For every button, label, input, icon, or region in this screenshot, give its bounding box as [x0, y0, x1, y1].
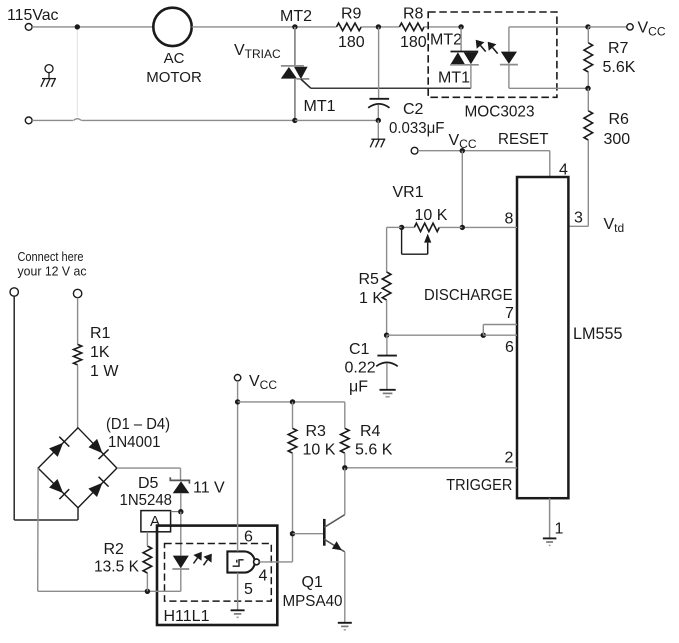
diode D4 bottom-right: [88, 483, 102, 497]
H11L1 LED: [172, 556, 189, 569]
resistor R3: [292, 402, 294, 428]
svg-text:VR1: VR1: [393, 184, 424, 201]
junction top rail: [75, 24, 80, 29]
potentiometer VR1: [414, 223, 439, 231]
optocoupler H11L1 box: [157, 526, 277, 625]
wire pin 1 down: [549, 498, 551, 538]
wire R8 into MOC3023: [424, 26, 461, 28]
terminal 12Vac right: [73, 289, 81, 297]
wire node to pins 6/7: [387, 334, 484, 336]
IC U1 LM555 box: [517, 177, 568, 498]
svg-text:1N5248: 1N5248: [120, 492, 173, 509]
wire pin 6 column: [237, 402, 239, 552]
earth ground C1: [380, 390, 396, 397]
svg-text:AC: AC: [164, 50, 185, 67]
svg-text:R3: R3: [306, 423, 327, 440]
wire 12Vac left down: [13, 296, 15, 520]
diode D2 top-right: [89, 439, 103, 453]
svg-text:R9: R9: [341, 6, 362, 23]
svg-text:Connect here: Connect here: [18, 250, 84, 264]
junction C2 bottom: [376, 118, 381, 123]
earth ground Q1: [338, 623, 352, 630]
svg-text:6: 6: [505, 339, 514, 356]
junction pin8/VR1: [460, 225, 465, 230]
wire pin4 up to base node: [292, 534, 294, 562]
svg-text:R6: R6: [609, 111, 630, 128]
svg-text:(D1 – D4): (D1 – D4): [106, 416, 170, 433]
svg-text:180: 180: [400, 34, 427, 51]
svg-text:R1: R1: [90, 325, 111, 342]
terminal Vcc top right: [627, 24, 633, 30]
svg-text:5.6 K: 5.6 K: [355, 442, 393, 459]
wire C2 to bottom rail: [377, 105, 379, 121]
junction trigger node: [342, 465, 347, 470]
wire MOC LED bottom out: [509, 87, 588, 89]
wire Vcc to rail: [237, 381, 239, 402]
wire bridge bottom stub: [77, 508, 79, 520]
junction MOC pin MT2: [458, 24, 463, 29]
resistor R5: [382, 272, 391, 300]
svg-text:3: 3: [574, 210, 583, 227]
resistor R8: [399, 23, 424, 31]
wire R9 to R8: [361, 26, 399, 28]
diode D1 top-left: [49, 443, 63, 457]
resistor R9: [337, 23, 362, 31]
svg-text:7: 7: [505, 305, 514, 322]
capacitor C2: [368, 99, 389, 108]
wire R1 to bridge top: [77, 365, 79, 428]
junction MT1 bottom: [292, 118, 297, 123]
junction VR1 left: [399, 225, 404, 230]
svg-text:R4: R4: [360, 423, 381, 440]
wire VR1 to R5: [387, 226, 402, 228]
svg-text:5.6K: 5.6K: [603, 59, 636, 76]
wire Q1 emitter down: [344, 552, 346, 623]
svg-text:C2: C2: [403, 101, 424, 118]
svg-text:180: 180: [338, 34, 365, 51]
resistor R2: [146, 573, 148, 591]
junction C1 node: [384, 333, 389, 338]
Q1 emitter arrow: [332, 541, 342, 550]
wire D5 to node A: [180, 493, 182, 512]
transistor Q1: [324, 515, 345, 552]
wire bottom rail: [32, 119, 73, 121]
wire MT2 down to triac: [294, 27, 296, 67]
wire pin 4 out: [259, 561, 292, 563]
svg-text:DISCHARGE: DISCHARGE: [424, 287, 513, 304]
junction pin6/7 link: [481, 333, 486, 338]
diode D3 bottom-left: [49, 479, 63, 493]
wire Vcc to reset corner: [418, 150, 550, 152]
wire node A to LED: [180, 512, 182, 556]
wire motor to MT2: [192, 26, 337, 28]
photon arrows MOC: [476, 40, 486, 52]
wire pin7 link: [482, 325, 484, 336]
wire to Vcc terminal: [588, 26, 627, 28]
junction node A: [178, 509, 183, 514]
schmitt gate H11L1: [227, 551, 254, 572]
svg-text:MT1: MT1: [304, 98, 336, 115]
svg-text:MOC3023: MOC3023: [465, 104, 535, 121]
wire C2 to chassis ground: [377, 120, 379, 139]
svg-text:10 K: 10 K: [303, 442, 336, 459]
wire 12Vac right to R1: [77, 298, 79, 345]
svg-text:C1: C1: [349, 341, 370, 358]
resistor R7: [587, 27, 589, 43]
wire Q1 base: [293, 533, 325, 535]
svg-text:115Vac: 115Vac: [7, 7, 59, 24]
junction Vcc top: [585, 24, 590, 29]
junction Vcc rail left: [235, 399, 240, 404]
svg-text:0.033μF: 0.033μF: [389, 120, 445, 137]
zener diode D5: [170, 477, 189, 493]
wire MOC LED top to Vcc rail: [509, 26, 588, 28]
wire VR1 right lead: [439, 226, 462, 228]
svg-text:300: 300: [604, 131, 631, 148]
svg-text:MT1: MT1: [438, 70, 470, 87]
wire top rail left: [32, 26, 152, 28]
junction MT2: [292, 24, 297, 29]
svg-text:your 12 V ac: your 12 V ac: [18, 265, 87, 279]
crossover hop: [74, 119, 82, 121]
svg-text:R8: R8: [403, 6, 424, 23]
svg-text:LM555: LM555: [573, 325, 623, 343]
wire bridge left down: [37, 468, 39, 591]
wire Vcc column to pin 8: [461, 151, 463, 228]
svg-text:2: 2: [505, 450, 514, 467]
optocoupler MOC3023 dashed box: [428, 12, 557, 97]
wire R5 to C1 node: [386, 300, 388, 335]
earth ground pin 1: [543, 538, 557, 545]
terminal Vcc bottom: [234, 375, 240, 381]
wire reset down to pin 4: [549, 151, 551, 177]
triac V1 symbol: [281, 66, 310, 79]
capacitor C1: [376, 335, 398, 390]
wire Q1 collector: [344, 468, 346, 515]
svg-text:R2: R2: [104, 541, 125, 558]
chassis ground C2: [370, 139, 385, 147]
faint vertical crease line: [76, 30, 78, 118]
svg-text:6: 6: [244, 529, 253, 546]
svg-text:13.5 K: 13.5 K: [94, 559, 139, 576]
junction R3 top: [290, 399, 295, 404]
junction R7/R6: [585, 86, 590, 91]
MOC photo-triac: [450, 52, 479, 65]
wire LED cathode down: [180, 569, 182, 591]
svg-text:R7: R7: [608, 40, 629, 57]
wire pin 8: [462, 226, 517, 228]
terminal 115Vac hot: [25, 24, 32, 31]
terminal 12Vac left: [10, 288, 18, 296]
wire bridge right to D5: [117, 467, 181, 469]
bridge rectifier D1-D4 diamond: [38, 428, 117, 508]
wire junction down to C2: [378, 27, 380, 98]
svg-text:MT2: MT2: [280, 8, 312, 25]
svg-text:4: 4: [259, 568, 268, 585]
hysteresis symbol: [233, 560, 244, 566]
svg-text:MOTOR: MOTOR: [146, 69, 202, 86]
svg-text:8: 8: [505, 211, 514, 228]
svg-text:A: A: [150, 513, 160, 530]
wire R6 down to pin 3: [587, 140, 589, 226]
svg-text:μF: μF: [349, 379, 368, 396]
svg-text:H11L1: H11L1: [164, 608, 210, 625]
svg-text:MPSA40: MPSA40: [283, 593, 343, 610]
wire MOC triac bottom: [470, 65, 472, 89]
resistor R4: [344, 402, 346, 428]
chassis ground symbol top left: [45, 65, 53, 73]
terminal Vcc 555: [411, 147, 418, 154]
wire LED cathode to R2 node: [147, 590, 180, 592]
svg-text:11 V: 11 V: [193, 480, 225, 497]
junction Q1 base node: [290, 531, 295, 536]
H11L1 dashed box: [165, 544, 272, 602]
svg-text:5: 5: [244, 581, 253, 598]
svg-text:TRIGGER: TRIGGER: [446, 477, 512, 494]
wire gate to MOC3023: [311, 87, 471, 89]
svg-text:MT2: MT2: [430, 32, 462, 49]
wire triac gate diagonal: [301, 79, 311, 88]
earth ground H11L1: [231, 610, 245, 617]
svg-text:Q1: Q1: [302, 574, 323, 591]
wire trigger: [345, 467, 517, 469]
wire A box to node: [171, 511, 178, 513]
terminal AC neutral: [25, 117, 32, 124]
svg-text:1K: 1K: [90, 344, 110, 361]
svg-text:R5: R5: [359, 271, 380, 288]
node A box: [141, 511, 171, 532]
svg-text:1N4001: 1N4001: [108, 434, 161, 451]
junction R9/R8/C2: [376, 24, 381, 29]
wire pin 3: [568, 225, 588, 227]
VR1 wiper arrow: [424, 234, 431, 255]
wire Vcc rail: [238, 401, 345, 403]
resistor R6: [587, 88, 589, 111]
svg-text:1 W: 1 W: [90, 363, 119, 380]
gate output bubble: [254, 559, 260, 565]
junction R2 bottom: [145, 589, 150, 594]
photon arrows H11L1: [193, 552, 201, 564]
svg-text:1 K: 1 K: [359, 290, 383, 307]
wire pin 5 column: [237, 573, 239, 611]
resistor R1: [74, 344, 82, 364]
junction Vcc column: [460, 148, 465, 153]
svg-text:1: 1: [555, 521, 564, 538]
wire VR1 left lead: [402, 226, 415, 228]
svg-text:D5: D5: [138, 475, 159, 492]
wire triac MT1 down: [294, 79, 296, 120]
AC motor M1: [153, 8, 191, 46]
MOC LED: [500, 27, 518, 88]
wire bottom return rail: [38, 590, 148, 592]
wire R2 top to A box: [146, 532, 148, 546]
svg-text:RESET: RESET: [498, 131, 549, 148]
svg-text:0.22: 0.22: [345, 360, 376, 377]
svg-text:10 K: 10 K: [415, 207, 448, 224]
wire wiper return: [402, 253, 428, 255]
wire MT1 to C2 bottom: [295, 119, 378, 121]
wire MOC triac top: [460, 27, 462, 52]
